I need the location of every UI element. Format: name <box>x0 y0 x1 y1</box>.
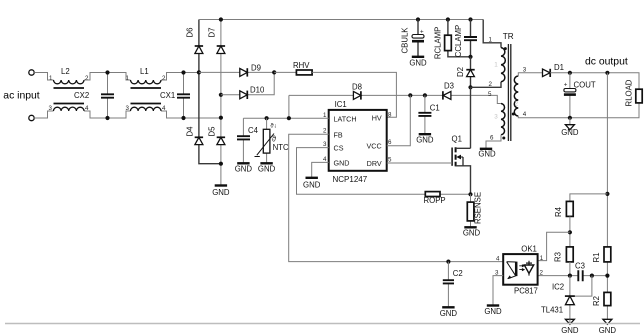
svg-text:GND: GND <box>416 135 434 144</box>
svg-text:D10: D10 <box>250 86 265 95</box>
svg-text:PC817: PC817 <box>514 287 538 296</box>
svg-text:R4: R4 <box>554 206 563 217</box>
svg-text:NTC: NTC <box>273 143 289 152</box>
svg-text:5: 5 <box>388 156 392 163</box>
core <box>508 44 510 141</box>
wire dc output line <box>550 73 639 89</box>
svg-text:GND: GND <box>561 128 579 137</box>
ground RSENSE <box>463 227 481 237</box>
ground CBULK <box>409 57 427 68</box>
svg-text:NCP1247: NCP1247 <box>333 175 368 184</box>
wire LATCH line <box>243 95 328 118</box>
svg-text:L2: L2 <box>61 67 70 76</box>
svg-text:3: 3 <box>126 105 130 112</box>
svg-text:2: 2 <box>540 270 544 277</box>
node rail RCLAMP <box>446 17 450 21</box>
ground CCOUT secondary <box>561 118 579 137</box>
ground IC1 <box>303 178 321 190</box>
svg-text:GND: GND <box>334 158 350 167</box>
svg-text:ROPP: ROPP <box>424 196 446 205</box>
resistor RHV <box>293 61 312 75</box>
wire FB to opto pin 4 <box>289 134 504 261</box>
thermistor NTC <box>255 118 289 163</box>
svg-text:GND: GND <box>212 188 230 197</box>
svg-text:RSENSE: RSENSE <box>474 192 483 224</box>
op-amp U1 controller IC1 box <box>329 110 387 171</box>
diode D3 <box>443 82 454 100</box>
svg-text:CCLAMP: CCLAMP <box>454 25 463 58</box>
primary winding <box>501 48 505 82</box>
svg-text:4: 4 <box>162 105 166 112</box>
node CX1 top <box>181 70 185 74</box>
svg-text:DRV: DRV <box>367 159 382 168</box>
wire bottom AC line from terminal through L2/L1 to bridge <box>34 111 221 118</box>
wire DRV to gate <box>387 162 452 164</box>
aux winding <box>501 104 505 135</box>
svg-text:GND: GND <box>440 309 458 318</box>
svg-text:RCLAMP: RCLAMP <box>434 27 443 60</box>
node return CCOUT <box>568 116 572 120</box>
node C1 top <box>423 93 427 97</box>
svg-text:C3: C3 <box>575 262 585 271</box>
ground C2 <box>440 307 458 318</box>
op-amp U2 shunt regulator IC2 TL431 <box>541 276 592 320</box>
node CX1 bottom <box>181 116 185 120</box>
svg-text:CX2: CX2 <box>74 91 89 100</box>
svg-text:2: 2 <box>323 128 327 135</box>
diode D7 <box>208 28 226 54</box>
svg-text:COUT: COUT <box>574 81 596 90</box>
svg-text:Q1: Q1 <box>452 135 462 144</box>
resistor R2 <box>592 292 611 306</box>
ac input terminal top <box>29 70 34 75</box>
footer rule <box>5 323 640 325</box>
svg-text:3: 3 <box>49 105 53 112</box>
node C2 top <box>446 260 450 264</box>
node bridge bottom <box>219 162 223 166</box>
choke L1 <box>131 80 162 84</box>
capacitor C1 <box>418 95 439 134</box>
svg-text:GND: GND <box>478 150 496 159</box>
svg-text:D3: D3 <box>444 82 454 91</box>
wire pin 1 from rail <box>483 20 501 48</box>
svg-text:5: 5 <box>488 91 492 98</box>
node CX2 top <box>105 70 109 74</box>
svg-text:GND: GND <box>235 165 253 174</box>
svg-text:GND: GND <box>409 59 427 68</box>
svg-text:2: 2 <box>85 75 89 82</box>
transformer TR <box>483 20 527 149</box>
svg-text:GND: GND <box>463 229 481 238</box>
resistor RLOAD <box>625 79 643 106</box>
svg-text:4: 4 <box>323 156 327 163</box>
svg-text:dc output: dc output <box>585 56 628 67</box>
svg-text:D6: D6 <box>186 28 195 38</box>
node LATCH-NTC <box>265 116 269 120</box>
svg-text:+: + <box>420 29 424 36</box>
node switch node <box>468 85 472 89</box>
svg-text:D8: D8 <box>352 83 362 92</box>
svg-text:C2: C2 <box>453 269 463 278</box>
svg-text:R1: R1 <box>592 253 601 263</box>
node source RSENSE <box>468 192 472 196</box>
svg-text:C4: C4 <box>248 126 259 135</box>
wire switch node to primary pin 2 <box>471 82 502 88</box>
diode D1 <box>543 63 564 77</box>
capacitor CCOUT <box>564 73 596 118</box>
svg-text:4: 4 <box>523 111 527 118</box>
node bridge AC2 <box>219 116 223 120</box>
wire opto pin 3 to ground <box>493 276 503 306</box>
phototransistor inside <box>528 261 530 276</box>
node LATCH-D8 branch <box>287 116 291 120</box>
svg-text:6: 6 <box>388 139 392 146</box>
svg-text:ac input: ac input <box>3 90 40 101</box>
svg-text:GND: GND <box>484 307 502 316</box>
choke L2 <box>54 80 85 84</box>
node CCOUT top <box>568 71 572 75</box>
svg-text:2: 2 <box>489 81 493 88</box>
diode D10 <box>240 86 265 100</box>
wire bridge right column <box>220 20 222 186</box>
node VCC branch <box>408 93 412 97</box>
svg-text:GND: GND <box>599 326 617 335</box>
svg-text:1: 1 <box>49 75 53 82</box>
capacitor CX2 <box>107 73 109 119</box>
ground TL431 secondary <box>561 319 579 335</box>
wire tap to opto pin1 <box>538 232 570 260</box>
ground C4 <box>235 163 253 173</box>
svg-text:TL431: TL431 <box>541 306 563 315</box>
node bridge AC1 <box>197 70 201 74</box>
secondary winding <box>514 76 518 116</box>
node feedback tap <box>605 71 609 75</box>
capacitor CCLAMP <box>454 20 477 58</box>
transistor Q2 MOSFET Q1 <box>452 135 471 195</box>
svg-text:OK1: OK1 <box>521 245 537 254</box>
diode D5 <box>208 126 226 145</box>
node rail CBULK <box>416 17 420 21</box>
svg-text:TR: TR <box>503 32 514 41</box>
node R3 ref <box>568 274 572 278</box>
ground C1 <box>416 134 434 144</box>
wire CS to ROPP line <box>297 148 471 195</box>
svg-text:C1: C1 <box>430 104 440 113</box>
capacitor C2 <box>443 262 463 308</box>
svg-text:ϑ↓: ϑ↓ <box>270 123 276 130</box>
node R1 R2 <box>605 274 609 278</box>
ac input terminal bottom <box>29 115 34 120</box>
capacitor C3 <box>575 262 585 282</box>
wire RHV to HV pin <box>312 72 396 117</box>
svg-text:D4: D4 <box>186 126 195 137</box>
svg-text:D2: D2 <box>456 67 465 77</box>
wire secondary return line pin 4 <box>518 103 639 118</box>
svg-text:R3: R3 <box>554 252 563 262</box>
ground opto pin3 <box>484 306 502 317</box>
node rail CCLAMP <box>468 17 472 21</box>
node D9 D10 junction <box>272 70 276 74</box>
svg-text:6: 6 <box>490 135 494 142</box>
svg-text:D5: D5 <box>208 126 217 137</box>
svg-text:CX1: CX1 <box>160 91 175 100</box>
resistor ROPP <box>424 192 446 205</box>
svg-text:CS: CS <box>334 144 344 153</box>
svg-text:FB: FB <box>334 130 343 139</box>
svg-text:GND: GND <box>303 180 321 189</box>
wire secondary pin3 to D1 <box>518 73 542 76</box>
svg-text:IC2: IC2 <box>552 283 564 292</box>
node CX2 bottom <box>105 116 109 120</box>
wire reference line pin2 to R1R2 <box>538 275 608 277</box>
svg-text:GND: GND <box>561 326 579 335</box>
svg-text:RLOAD: RLOAD <box>625 79 634 106</box>
svg-text:D9: D9 <box>251 64 261 73</box>
light arrows <box>519 266 523 270</box>
node bridge top rail <box>219 17 223 21</box>
svg-text:HV: HV <box>372 113 382 122</box>
node clamp junction <box>468 55 472 59</box>
svg-text:3: 3 <box>494 114 498 121</box>
svg-text:+: + <box>564 82 568 89</box>
ground R2 secondary <box>599 319 617 335</box>
wire feedback column from output <box>606 73 608 319</box>
svg-text:2: 2 <box>515 101 519 108</box>
capacitor CX1 <box>183 73 185 119</box>
wire top AC line from terminal through L2/L1 to bridge <box>34 73 199 81</box>
ground bridge <box>212 186 230 198</box>
svg-text:8: 8 <box>388 112 392 119</box>
wire R3 bottom to reference line <box>569 262 571 276</box>
diode D6 <box>186 28 204 54</box>
resistor R4 <box>554 201 573 217</box>
svg-text:VCC: VCC <box>367 142 382 151</box>
svg-text:3: 3 <box>323 141 327 148</box>
node feedback to R4 <box>605 192 609 196</box>
resistor RCLAMP <box>434 20 471 60</box>
wire AC1 to D9 <box>199 71 274 73</box>
optocoupler OK1 <box>495 245 544 296</box>
wire drain column <box>470 87 472 148</box>
capacitor CBULK <box>401 20 425 57</box>
svg-text:1: 1 <box>540 255 544 262</box>
wire AC2 to D10 <box>221 72 274 94</box>
wire R4 to R3 <box>569 216 571 247</box>
wire junction to RHV <box>274 71 296 73</box>
wire VCC pin <box>387 95 411 145</box>
svg-text:4: 4 <box>85 105 89 112</box>
diode D4 <box>186 126 204 145</box>
svg-text:CBULK: CBULK <box>401 27 410 54</box>
resistor RSENSE <box>467 192 482 227</box>
wire rectified top rail <box>199 19 483 21</box>
resistor R3 <box>554 247 574 262</box>
capacitor C4 <box>237 118 259 163</box>
wire IC1 GND pin <box>312 162 329 177</box>
svg-text:4: 4 <box>496 256 500 263</box>
LED inside <box>507 262 516 276</box>
diode D9 <box>240 64 261 77</box>
node opto tap <box>568 230 572 234</box>
svg-text:D1: D1 <box>554 63 564 72</box>
svg-text:R2: R2 <box>592 296 601 306</box>
wire bridge left column <box>199 20 221 164</box>
svg-text:LATCH: LATCH <box>334 114 357 123</box>
svg-text:1: 1 <box>489 37 493 44</box>
node bridge D10 tap <box>219 93 223 97</box>
svg-text:D7: D7 <box>208 28 217 38</box>
wire tap to R4 <box>570 194 608 202</box>
wire pin 6 to ground <box>486 135 501 149</box>
diode D8 <box>352 83 362 100</box>
svg-text:RHV: RHV <box>293 61 310 70</box>
svg-text:GND: GND <box>258 165 276 174</box>
ground TR pin 6 <box>478 149 496 159</box>
svg-text:IC1: IC1 <box>335 100 347 109</box>
node C3 right TL431 ref <box>590 274 594 278</box>
ground NTC <box>258 163 276 173</box>
svg-text:1: 1 <box>126 75 130 82</box>
resistor R1 <box>592 247 611 263</box>
svg-text:1: 1 <box>494 62 498 69</box>
svg-text:2: 2 <box>162 75 166 82</box>
wire VCC line with D8 D3 <box>289 95 501 103</box>
diode D2 <box>456 57 475 88</box>
svg-text:L1: L1 <box>140 67 149 76</box>
